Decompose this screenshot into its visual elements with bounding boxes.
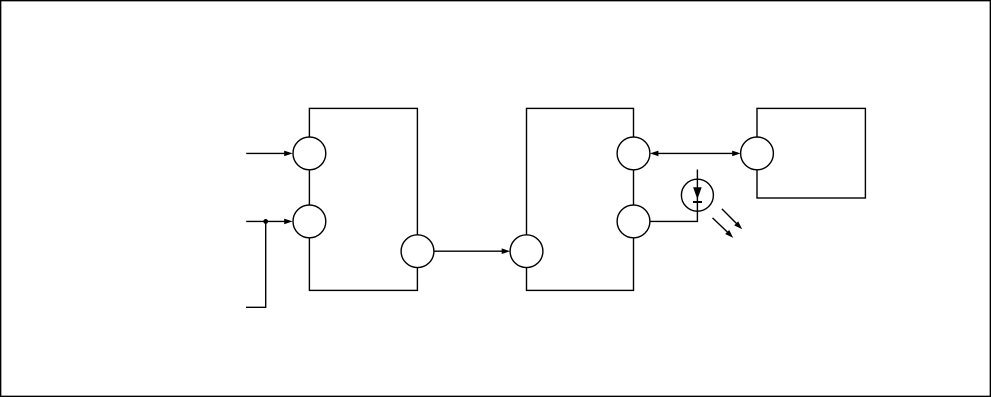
LED D1 anode triangle — [693, 187, 702, 199]
pin P3 (U1 output) — [401, 235, 434, 268]
block U3 (right box) — [757, 108, 865, 198]
LED D1 cathode bar — [693, 201, 702, 203]
light ray arrow 1 — [722, 209, 742, 229]
junction J1 on input 2 — [263, 219, 268, 224]
pin P1 (U1 input 1) — [293, 137, 326, 170]
pin P2 (U1 input 2) — [293, 205, 326, 238]
wire input 1 arrow into P1 — [246, 151, 292, 157]
light ray arrow 2 — [713, 218, 734, 238]
pin P4 (U2 input) — [510, 235, 543, 268]
block U2 (middle box) — [527, 108, 634, 290]
wire feedback from J1 down and left — [246, 221, 266, 307]
LED D1 circle — [681, 179, 713, 211]
wire P3 to P4 arrow — [434, 248, 510, 254]
pin P5 (U2 port upper) — [617, 137, 650, 170]
wire P6 to LED — [650, 170, 697, 222]
pin P6 (U2 port lower) — [617, 205, 650, 238]
wire input 2 arrow into P2 — [246, 219, 292, 225]
pin P7 (U3 port) — [741, 137, 774, 170]
wire P5 to P7 double arrow — [650, 151, 741, 157]
block U1 (left box) — [309, 108, 417, 290]
